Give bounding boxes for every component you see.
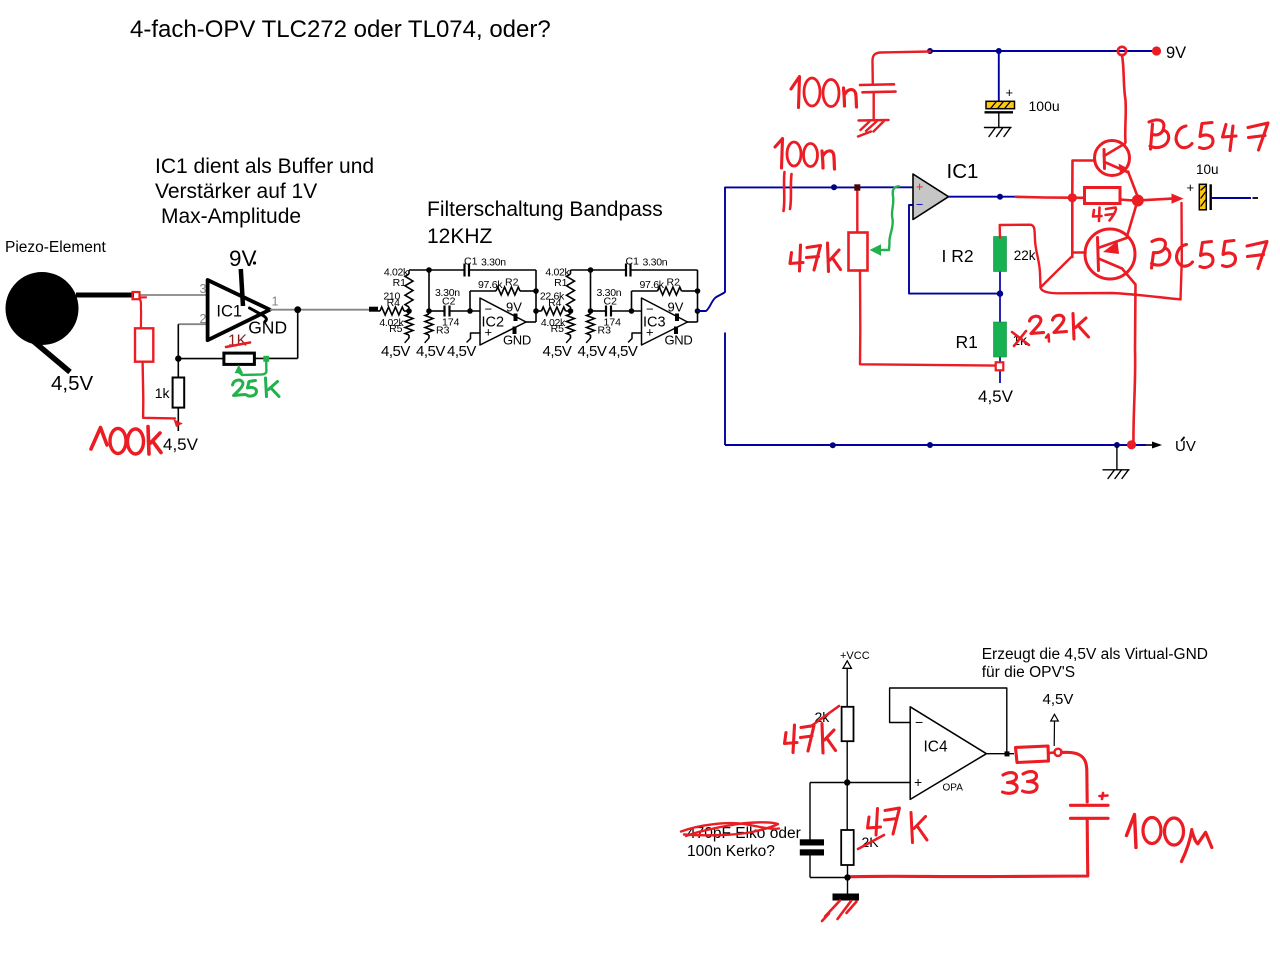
svg-text:10u: 10u: [1196, 162, 1219, 177]
svg-text:Verstärker auf 1V: Verstärker auf 1V: [155, 180, 317, 203]
svg-text:R5: R5: [389, 323, 403, 335]
svg-text:3.30n: 3.30n: [643, 256, 668, 268]
svg-text:22k: 22k: [1014, 248, 1036, 263]
svg-text:4,5V: 4,5V: [51, 372, 93, 395]
svg-text:IC4: IC4: [924, 739, 949, 756]
svg-text:9V: 9V: [506, 300, 522, 315]
svg-text:für die OPV'S: für die OPV'S: [982, 664, 1075, 681]
svg-text:R1: R1: [956, 332, 978, 352]
svg-text:9V: 9V: [668, 300, 684, 315]
svg-text:R1: R1: [393, 277, 407, 289]
svg-text:4-fach-OPV TLC272 oder TL074,: 4-fach-OPV TLC272 oder TL074, oder?: [130, 16, 551, 43]
svg-text:4,5V: 4,5V: [163, 435, 199, 454]
svg-text:GND: GND: [665, 333, 693, 348]
svg-text:4,5V: 4,5V: [578, 343, 607, 360]
svg-text:Erzeugt die 4,5V als Virtual-G: Erzeugt die 4,5V als Virtual-GND: [982, 646, 1208, 663]
svg-text:R2: R2: [667, 277, 681, 289]
svg-text:Piezo-Element: Piezo-Element: [5, 239, 106, 256]
svg-text:IC3: IC3: [643, 315, 666, 331]
svg-text:4,5V: 4,5V: [447, 343, 476, 360]
svg-text:+: +: [916, 180, 923, 194]
svg-text:100n Kerko?: 100n Kerko?: [687, 843, 775, 860]
svg-text:R1: R1: [554, 277, 568, 289]
svg-text:R3: R3: [436, 325, 450, 337]
svg-text:1: 1: [272, 295, 279, 309]
svg-text:C2: C2: [442, 295, 456, 307]
svg-text:+: +: [1006, 85, 1014, 100]
svg-text:R4: R4: [548, 297, 562, 309]
svg-text:R5: R5: [551, 323, 565, 335]
svg-text:3: 3: [200, 282, 207, 296]
svg-text:9V: 9V: [1166, 44, 1186, 62]
svg-text:OPA: OPA: [943, 783, 964, 794]
svg-text:C1: C1: [626, 256, 640, 268]
svg-text:I R2: I R2: [942, 246, 974, 266]
svg-text:4,5V: 4,5V: [978, 387, 1014, 406]
svg-text:Filterschaltung Bandpass: Filterschaltung Bandpass: [427, 198, 663, 221]
svg-text:R4: R4: [387, 297, 401, 309]
svg-text:97.6k: 97.6k: [478, 279, 503, 291]
svg-text:1k: 1k: [155, 385, 171, 401]
svg-text:IC1: IC1: [216, 303, 242, 321]
svg-text:IC2: IC2: [482, 315, 505, 331]
svg-text:97.6k: 97.6k: [640, 279, 665, 291]
svg-text:12KHZ: 12KHZ: [427, 225, 493, 248]
svg-text:+: +: [1187, 180, 1195, 195]
svg-text:3.30n: 3.30n: [481, 256, 506, 268]
svg-text:Max-Amplitude: Max-Amplitude: [161, 205, 301, 228]
svg-text:2: 2: [200, 312, 207, 326]
svg-text:GND: GND: [248, 318, 287, 338]
svg-text:−: −: [915, 714, 923, 730]
svg-text:9V: 9V: [229, 246, 257, 271]
svg-text:4,5V: 4,5V: [609, 343, 638, 360]
svg-text:C1: C1: [464, 256, 478, 268]
svg-text:GND: GND: [503, 333, 531, 348]
svg-text:R2: R2: [505, 277, 519, 289]
svg-text:100u: 100u: [1029, 98, 1060, 114]
svg-text:4,5V: 4,5V: [1043, 691, 1074, 708]
svg-text:+VCC: +VCC: [840, 650, 870, 662]
svg-text:C2: C2: [604, 295, 618, 307]
svg-text:IC1: IC1: [947, 160, 979, 183]
svg-text:IC1 dient als Buffer und: IC1 dient als Buffer und: [155, 155, 374, 178]
svg-text:−: −: [916, 198, 923, 212]
svg-text:+: +: [914, 774, 922, 790]
svg-text:4,5V: 4,5V: [543, 343, 572, 360]
svg-text:UV: UV: [1175, 438, 1196, 455]
svg-text:R3: R3: [598, 325, 612, 337]
svg-text:4,5V: 4,5V: [381, 343, 410, 360]
svg-text:4,5V: 4,5V: [416, 343, 445, 360]
